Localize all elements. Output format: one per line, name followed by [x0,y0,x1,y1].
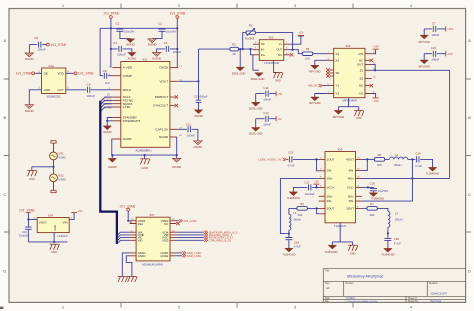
svg-text:AGND: AGND [123,137,133,141]
power port +15V (IO3) [372,44,379,53]
op-amp IO2 LT1253 [259,36,283,66]
pin COMP [112,75,120,77]
pin stubs IO7 [130,221,177,256]
svg-text:C14: C14 [415,152,421,156]
svg-text:GND: GND [141,166,149,170]
capacitor C20 [384,233,401,248]
svg-text:C15: C15 [431,46,437,50]
svg-text:2014AC12347: 2014AC12347 [430,292,447,296]
wire 4IN+ long [362,177,450,179]
svg-text:C6: C6 [34,36,38,40]
svg-text:100nF: 100nF [186,133,195,137]
ground AGND (C1) [126,39,136,47]
resistor R7 [362,202,388,217]
voltage source VS2 [50,167,66,193]
svg-text:TL064GND: TL064GND [381,253,394,257]
capacitor C6 [30,36,47,51]
svg-text:1OUT: 1OUT [327,158,335,162]
svg-text:C5: C5 [194,94,198,98]
wire VOUT node [178,49,198,100]
wire X2 to ground [315,60,327,65]
svg-text:INTERRUPT: INTERRUPT [123,119,141,123]
capacitor C5 820pF [194,94,208,109]
pin STANDBY [112,117,120,119]
capacitor C19 [362,181,388,193]
pin DVDD [170,67,178,69]
svg-text:4.7uF: 4.7uF [294,245,301,249]
resistor R2 [230,43,239,56]
off-page connector AM_IN [308,84,327,88]
svg-text:C:\Users\Desktop\AMprij.SchDoc: C:\Users\Desktop\AMprij.SchDoc [345,300,378,303]
svg-text:L2: L2 [395,153,399,157]
resistor R5 [297,202,319,217]
ground DGND (C6) [25,53,35,61]
zone labels top [62,3,413,8]
svg-text:100nF: 100nF [117,53,126,57]
svg-text:Z2: Z2 [360,77,364,81]
svg-text:C: C [468,192,471,197]
power port 1V1_STAB (osc OE) [16,72,35,76]
wire comp rail [100,28,103,75]
ground TL064GND (IO5 bottom) [324,223,352,254]
zone ticks top [121,4,353,9]
wire agnd rail [112,137,177,155]
svg-text:VSRC: VSRC [58,155,66,159]
svg-text:4IN-: 4IN- [349,169,354,173]
svg-text:MPYGND: MPYGND [419,40,431,44]
ground AGND (C5) [194,110,204,118]
ground DGND (C4) [152,53,162,61]
svg-text:C20: C20 [394,237,400,241]
svg-text:-15V: -15V [373,99,379,103]
power port 1V1_STAB (LF33) [19,209,35,221]
svg-text:B: B [3,115,6,120]
svg-text:4IN+: 4IN+ [348,177,354,181]
svg-text:VID: VID [138,238,143,242]
svg-text:2OUT: 2OUT [327,207,335,211]
wire amp out [290,50,327,54]
no-connect IO3 left SF pins [326,68,329,77]
off-page connector PSYNC [176,236,233,240]
zone ticks right [466,79,471,232]
svg-text:CTRL/GPIO_8_1D: CTRL/GPIO_8_1D [209,238,231,242]
svg-text:Z1: Z1 [360,68,364,72]
svg-text:10u/16V: 10u/16V [304,192,314,196]
pin DGND [170,136,177,138]
power port 1V1_STAB (AVDD rail) [103,12,119,29]
svg-text:3OUT: 3OUT [346,207,354,211]
svg-text:IO2: IO2 [269,36,274,40]
ground MPYGND (IO3 bottom) [333,98,359,119]
svg-text:C7: C7 [432,21,436,25]
svg-text:DGND: DGND [25,109,35,113]
svg-text:MPYGND: MPYGND [419,65,431,69]
svg-text:D: D [468,269,471,274]
svg-text:1V1_STAB: 1V1_STAB [19,209,35,213]
svg-text:TL064GND: TL064GND [324,250,337,254]
no-connect IO3 right [370,59,373,88]
svg-text:GND: GND [29,177,35,181]
capacitor C18 [285,234,301,249]
svg-text:LT1253CN8: LT1253CN8 [264,61,279,65]
svg-text:+VS: +VS [357,52,363,56]
ground DGND (osc) [25,105,35,113]
ground DGND (U1) [172,158,182,169]
svg-text:NC: NC [278,53,282,57]
svg-text:GND: GND [53,225,57,231]
capacitor C8 [103,69,113,85]
node junctions [110,27,179,50]
pin stubs IO3 [327,54,372,94]
svg-text:2IN+: 2IN+ [327,194,333,198]
svg-text:820pF: 820pF [200,94,208,98]
wire regulator ground rail [28,233,67,242]
wire [35,72,42,74]
regulator IO4 LF33 [34,213,73,238]
svg-text:C3: C3 [113,41,117,45]
svg-text:GND: GND [356,116,362,120]
ground ZESIL.GND (input) [232,67,246,76]
svg-text:100nF: 100nF [173,50,182,54]
inductor L2 [385,153,414,167]
svg-text:MPYGND: MPYGND [309,69,321,73]
zone labels left [3,38,6,274]
svg-text:VE1: VE1 [138,222,144,226]
power port +5V (LF33) [69,210,82,219]
wire input to amp [199,49,253,55]
wire C14 node down [362,159,413,201]
wire OUT Z1 join [372,64,375,70]
off-page connector GND_LC5K a [176,251,201,255]
pin names U1 [123,66,169,141]
svg-text:IO5: IO5 [338,147,343,151]
svg-text:TL064GND: TL064GND [282,252,295,256]
capacitor C15 [424,46,453,62]
svg-text:GND2: GND2 [160,254,168,258]
oscillator X1 [39,64,70,99]
bus entry wires ADUM [117,232,130,244]
ground MPYGND (Y2) [309,97,321,105]
svg-text:IO4: IO4 [48,213,53,217]
wire feedback stage4 [362,159,367,170]
svg-text:1.6.2014: 1.6.2014 [345,297,355,300]
svg-text:C4: C4 [164,41,168,45]
zone ticks bottom [121,302,353,307]
node VS junction [52,166,54,168]
pin stubs IO5 [319,159,362,213]
svg-text:A-VDD: A-VDD [123,66,133,70]
power port -15V (IO3) [372,94,379,103]
svg-text:100nF: 100nF [86,94,95,98]
pin A-VDD [112,67,120,69]
svg-text:ADUM1401ARW: ADUM1401ARW [142,262,163,266]
svg-text:+5V: +5V [278,92,283,96]
svg-text:AGND: AGND [194,114,204,118]
svg-text:150uH: 150uH [395,218,403,222]
ground AGND (C3) [128,53,138,61]
svg-text:C: C [3,192,6,197]
no-connect ADUM NC [176,222,179,225]
zone labels right [468,38,471,274]
wire to GND earth [32,167,54,171]
capacitor C17 [293,180,318,196]
svg-text:C19: C19 [369,181,375,185]
corner mark [0,307,3,309]
svg-text:1IN-: 1IN- [327,169,332,173]
inductor L1 [288,208,301,234]
svg-text:X2: X2 [336,58,340,62]
svg-text:C1: C1 [116,21,120,25]
ground MPYGND (C15) [419,60,431,69]
svg-text:TL064GND: TL064GND [426,171,439,175]
capacitor C2 [152,21,176,38]
svg-text:D: D [3,269,6,274]
bus entry wires [101,97,113,111]
capacitor C11 [178,122,198,140]
ground AGND (standby) [103,126,113,134]
ground MPYGND (X2) [309,65,321,73]
svg-text:R2: R2 [232,43,236,47]
svg-text:ZESIL.GND: ZESIL.GND [249,106,263,110]
svg-text:C9: C9 [87,83,91,87]
svg-text:4OUT: 4OUT [346,158,354,162]
svg-text:DGND: DGND [172,165,182,169]
ground ZESIL.GND (C12) [249,128,263,136]
svg-text:MPYGND: MPYGND [309,101,321,105]
svg-text:VCC-: VCC- [347,186,354,190]
pin CAP1.5V [170,128,178,130]
svg-text:X1: X1 [336,52,340,56]
svg-text:C18: C18 [294,240,300,244]
wire [66,72,74,74]
svg-text:1V1_STAB: 1V1_STAB [103,12,119,16]
svg-text:A: A [3,38,6,43]
svg-text:DVDD: DVDD [159,66,169,70]
svg-text:R7: R7 [370,202,374,206]
svg-text:Sheet of: Sheet of [408,297,417,300]
op-amp IO5 TL064 [325,147,356,228]
wire to regulator [28,218,37,220]
ground AGND (U1) [108,158,118,169]
wire ZESIL gnd tap [239,49,241,67]
zone labels bottom [62,305,413,310]
ground DGND (C2) [148,39,158,47]
title block [323,269,465,303]
wire feedback [243,33,293,50]
svg-text:10K: 10K [370,213,375,217]
svg-text:OUT: OUT [276,48,282,52]
capacitor C16 [256,86,283,102]
svg-text:L3: L3 [395,211,399,215]
wire GND1 pins [122,253,129,276]
svg-text:1IN+: 1IN+ [327,177,333,181]
svg-text:C16: C16 [263,86,269,90]
ground GND earth (IO3 bottom) [354,111,364,121]
svg-text:C12: C12 [263,111,269,115]
pin SCLK [112,96,120,98]
power port 1V1_STAB (osc VDD) [74,72,93,76]
svg-text:Number: Number [345,282,353,285]
ground TL064GND (C19) [369,193,384,201]
svg-text:+5V: +5V [78,210,83,213]
svg-text:100nF: 100nF [37,48,46,52]
off-page connector SDATA [176,230,237,234]
svg-text:-15V: -15V [447,52,453,56]
power port +5V (C17) [314,180,320,188]
svg-text:+15V: +15V [447,27,453,31]
ground TL064GND (C18) [282,248,295,256]
svg-text:GND: GND [275,79,281,83]
svg-text:100nF: 100nF [431,33,439,37]
svg-text:L1: L1 [293,211,297,215]
svg-text:Pot 3K3: Pot 3K3 [245,36,255,40]
svg-text:OCT: OCT [57,88,64,92]
svg-text:A: A [468,38,471,43]
svg-text:ZESIL.GND: ZESIL.GND [232,72,246,76]
wire IO2 V- to ground [253,55,278,73]
ground ZESIL.GND (C16) [249,102,263,110]
svg-text:1K: 1K [232,52,236,56]
svg-text:10u/16V: 10u/16V [166,30,177,34]
capacitor C7 [424,21,453,37]
svg-text:CTRL: CTRL [123,105,131,109]
svg-text:100nF: 100nF [263,98,271,102]
svg-text:C13: C13 [288,150,294,154]
svg-text:Drawn By:: Drawn By: [408,300,419,303]
power port +5V (IO2) [290,31,304,45]
svg-text:NC: NC [164,222,168,226]
ground GND earth (IO2) [273,73,283,83]
svg-text:3IN+: 3IN+ [348,194,354,198]
svg-text:Petr Duga: Petr Duga [430,300,441,303]
svg-text:AGND: AGND [126,42,136,46]
svg-text:MSBOUT: MSBOUT [155,95,168,99]
off-page connector GND_LC5K b [176,254,201,258]
pin numbers U1 [109,66,183,137]
svg-text:Y2: Y2 [336,92,340,96]
svg-text:IN-: IN- [261,48,265,52]
svg-text:COMP: COMP [123,74,132,78]
svg-text:4.7uF: 4.7uF [394,241,401,245]
svg-text:AGND: AGND [128,56,138,60]
off-page connector LOW_AUDIO_IN [258,158,288,162]
svg-text:SYNCOUT: SYNCOUT [153,104,168,108]
svg-text:IO7: IO7 [150,213,155,217]
pin PSYNC [112,99,120,101]
svg-text:10u/16V: 10u/16V [124,30,135,34]
capacitor C1 [116,21,135,38]
svg-text:VIN: VIN [63,221,68,225]
svg-text:GND: GND [350,251,356,255]
svg-text:OUT: OUT [357,63,364,67]
wire feedback stage1 [317,159,319,170]
op-amp U1 AD9835 main IC [121,57,170,152]
svg-text:R1: R1 [249,24,253,28]
power port 1V1_STAB (C6) [47,43,66,47]
svg-text:1V1_STAB: 1V1_STAB [50,43,66,47]
svg-text:Size: Size [325,283,330,285]
svg-text:Date: Date [325,297,331,300]
svg-text:GND: GND [51,250,57,254]
svg-text:OE: OE [44,72,48,76]
svg-text:10u/16V: 10u/16V [19,233,29,237]
pin VOUT [170,80,178,82]
svg-text:DGND: DGND [148,42,158,46]
svg-text:LF33CV: LF33CV [57,234,67,238]
ground GND earth (IO5 bottom) [348,245,358,255]
svg-text:-VS: -VS [358,92,363,96]
svg-text:-5V: -5V [278,117,282,121]
wire avdd drop [111,28,177,67]
svg-text:VOUT: VOUT [159,79,168,83]
pin MSBOUT [170,96,175,98]
svg-text:R6: R6 [378,153,382,157]
pin INTERRUPT [112,120,120,122]
svg-text:TL064GND: TL064GND [371,197,384,201]
no-connect MSBOUT [175,95,178,98]
capacitor C4 [157,41,182,54]
capacitor C9 [66,83,113,98]
ground GND earth (VS) [27,171,37,181]
svg-text:VDD: VDD [57,72,64,76]
svg-text:VCC+: VCC+ [327,186,335,190]
wire [29,90,41,105]
svg-text:3IN-: 3IN- [349,199,354,203]
svg-text:VOUT: VOUT [39,221,47,225]
svg-text:AGND: AGND [103,130,113,134]
svg-text:150uH: 150uH [394,163,402,167]
ground TL064GND (C20) [381,248,394,256]
svg-text:GND_LC5K: GND_LC5K [187,254,201,258]
pin CTRL [112,106,120,108]
ground GND earth (LF33) [50,244,60,254]
capacitor C10 [19,219,32,242]
svg-text:10K: 10K [305,57,310,61]
svg-text:ZESIL.GND: ZESIL.GND [251,77,265,81]
svg-text:C2: C2 [158,21,162,25]
svg-text:IO3: IO3 [346,44,351,48]
svg-text:1V1_STAB: 1V1_STAB [16,72,32,76]
svg-text:GND1: GND1 [138,254,146,258]
svg-text:MCLK: MCLK [123,88,133,92]
ground GND earth (U1) [140,159,150,170]
power port 1V1_STAB (DVDD rail) [170,12,186,29]
svg-text:DGND: DGND [159,135,169,139]
svg-text:Středovlnný AM přijímač: Středovlnný AM přijímač [347,274,384,278]
svg-text:1V1_STAB: 1V1_STAB [119,205,135,209]
off-page connector 3V3_LC5K [176,219,196,223]
svg-text:C8: C8 [103,69,107,73]
capacitor C13 [287,150,318,167]
svg-text:AGND: AGND [108,165,118,169]
svg-text:X1a: X1a [48,64,54,68]
svg-text:100nF: 100nF [431,58,439,62]
svg-text:+15V: +15V [373,44,379,48]
svg-text:DGND: DGND [152,56,162,60]
power port 1V1_STAB (ADUM) [119,205,135,222]
svg-text:IO1: IO1 [143,57,148,61]
pin SDATA [112,103,120,105]
svg-text:4.7uF: 4.7uF [287,163,294,167]
potentiometer R1 [245,24,256,41]
svg-text:DGND: DGND [193,145,203,149]
ground MPYGND (C7) [419,35,431,44]
svg-text:A4: A4 [326,286,330,290]
ground ZESIL.GND (IO2) [251,73,265,81]
svg-text:2IN-: 2IN- [327,199,332,203]
resistor R6 [362,153,385,167]
inductor L3 [387,211,403,234]
